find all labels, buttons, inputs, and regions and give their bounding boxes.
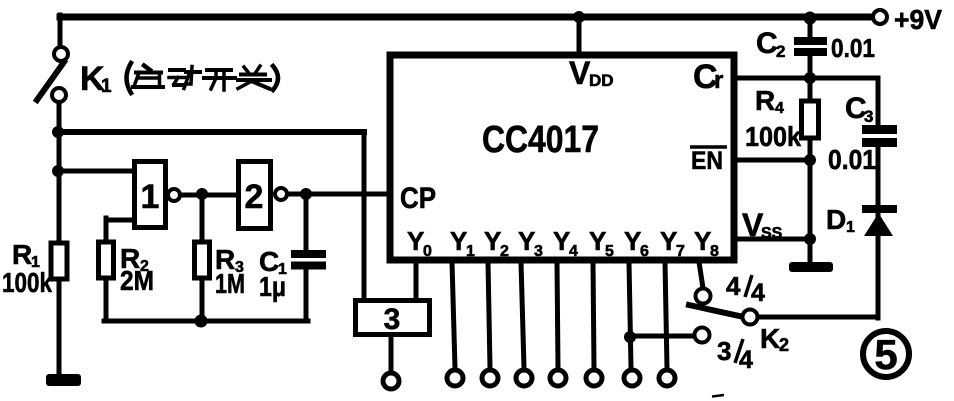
svg-text:D: D [826, 204, 846, 235]
svg-text:R: R [755, 85, 775, 116]
svg-text:4: 4 [726, 271, 741, 301]
svg-text:1: 1 [846, 219, 855, 236]
svg-text:2: 2 [779, 335, 789, 355]
svg-text:R: R [12, 239, 32, 270]
svg-text:3: 3 [717, 336, 731, 366]
svg-text:EN: EN [691, 147, 723, 175]
svg-text:1: 1 [466, 243, 475, 260]
svg-text:2: 2 [776, 42, 785, 61]
svg-text:DD: DD [589, 71, 614, 90]
svg-text:3: 3 [864, 107, 873, 126]
svg-text:0.01: 0.01 [828, 144, 876, 175]
svg-text:+9V: +9V [894, 4, 942, 35]
svg-text:CC4017: CC4017 [482, 119, 599, 161]
svg-text:1: 1 [101, 76, 112, 97]
svg-text:2M: 2M [120, 265, 154, 296]
svg-text:Y: Y [624, 226, 641, 256]
svg-text:3: 3 [534, 243, 543, 260]
svg-text:2: 2 [245, 178, 264, 216]
svg-text:6: 6 [640, 243, 649, 260]
svg-text:0.01: 0.01 [831, 33, 875, 63]
svg-text:r: r [714, 67, 723, 94]
svg-text:Y: Y [518, 226, 535, 256]
svg-text:1μ: 1μ [259, 271, 286, 302]
svg-text:4: 4 [569, 243, 578, 260]
svg-text:5: 5 [874, 331, 897, 378]
svg-text:1: 1 [141, 178, 160, 216]
svg-text:4: 4 [775, 100, 784, 117]
svg-text:5: 5 [605, 243, 614, 260]
svg-text:100k: 100k [2, 267, 52, 298]
svg-text:CP: CP [400, 182, 436, 215]
svg-text:Y: Y [694, 226, 711, 256]
svg-text:Y: Y [407, 226, 424, 256]
svg-text:C: C [756, 27, 778, 60]
svg-text:SS: SS [761, 225, 783, 242]
svg-text:7: 7 [676, 243, 685, 260]
svg-text:100k: 100k [745, 121, 801, 152]
svg-text:Y: Y [553, 226, 570, 256]
svg-text:0: 0 [423, 243, 432, 260]
svg-text:1M: 1M [215, 268, 245, 299]
svg-text:8: 8 [710, 243, 719, 260]
svg-text:Y: Y [660, 226, 677, 256]
svg-text:K: K [760, 323, 780, 354]
svg-text:Y: Y [589, 226, 606, 256]
svg-text:3: 3 [384, 303, 401, 336]
svg-text:4: 4 [739, 346, 753, 374]
svg-text:4: 4 [751, 279, 765, 307]
svg-text:V: V [569, 55, 591, 91]
svg-text:Y: Y [450, 226, 467, 256]
svg-text:2: 2 [500, 243, 509, 260]
svg-text:Y: Y [484, 226, 501, 256]
